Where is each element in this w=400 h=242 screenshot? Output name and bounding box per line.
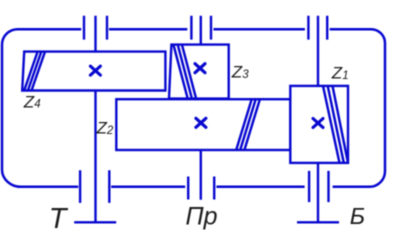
svg-text:Z2: Z2 (96, 119, 114, 138)
svg-text:Z4: Z4 (23, 92, 41, 111)
svg-text:Б: Б (350, 203, 365, 229)
svg-text:Т: Т (49, 203, 69, 235)
svg-text:Пр: Пр (186, 203, 218, 231)
svg-text:Z1: Z1 (331, 63, 349, 82)
svg-text:Z3: Z3 (231, 62, 249, 81)
